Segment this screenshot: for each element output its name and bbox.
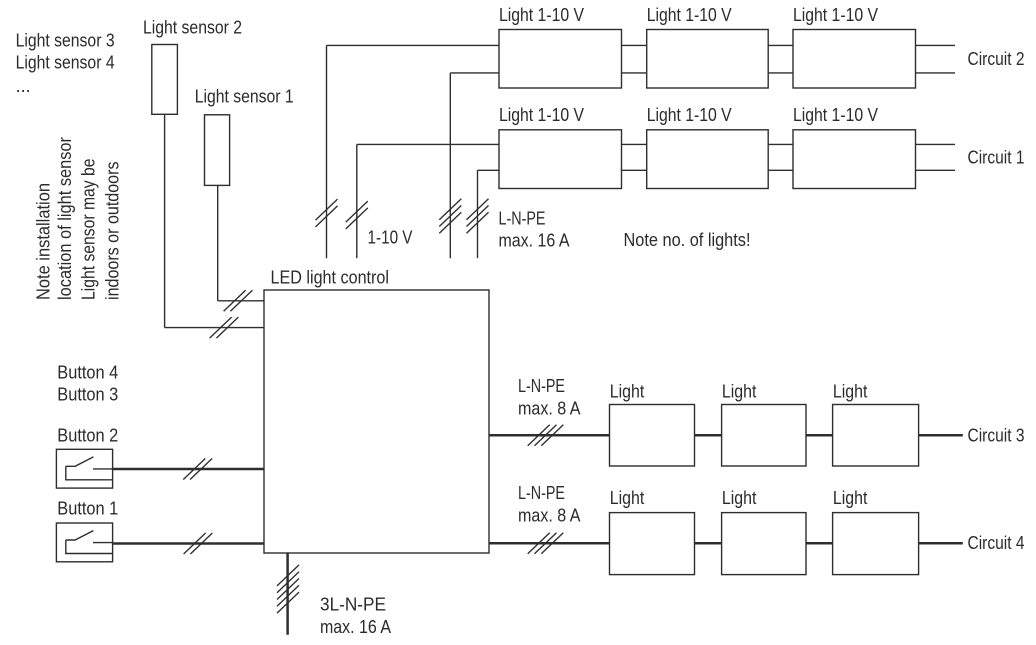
- wire controller to C1: [489, 434, 610, 437]
- wire A1-A2 top: [622, 44, 647, 46]
- wire sensor 2 vertical: [164, 114, 166, 327]
- wire A2-A3 bottom: [768, 72, 793, 74]
- svg-text:max. 8 A: max. 8 A: [518, 399, 581, 419]
- light box D3: [833, 513, 919, 575]
- svg-text:Light sensor 4: Light sensor 4: [16, 53, 115, 73]
- cable mark sensor 2 wire: [210, 317, 239, 338]
- wire controller to D1: [489, 542, 610, 545]
- wire sensor 1 horizontal: [218, 300, 264, 302]
- button 2 box: [56, 449, 112, 488]
- svg-text:Light 1-10 V: Light 1-10 V: [499, 105, 584, 125]
- light box C2: [722, 405, 806, 467]
- wire A3 out top: [916, 44, 956, 46]
- wire row B feed top: [357, 143, 499, 145]
- cable mark sensor 1 wire: [224, 290, 253, 311]
- cable mark 1-10V circuit 1: [346, 201, 368, 229]
- svg-text:Light: Light: [833, 381, 868, 401]
- cable mark L-N-PE circuit 2: [439, 199, 461, 234]
- svg-text:Note installation: Note installation: [34, 183, 54, 300]
- light 1-10V box B2: [647, 130, 769, 189]
- svg-text:Light 1-10 V: Light 1-10 V: [793, 5, 878, 25]
- light sensor 2 symbol: [152, 45, 178, 115]
- svg-text:...: ...: [16, 76, 31, 96]
- svg-text:Circuit 2: Circuit 2: [968, 49, 1025, 69]
- wire B3 out top: [916, 143, 956, 145]
- LED light control box: [264, 290, 489, 553]
- cable mark circuit 3 wire: [528, 425, 564, 446]
- svg-text:location of light sensor: location of light sensor: [55, 137, 75, 300]
- cable mark 1-10V circuit 2: [316, 199, 338, 227]
- svg-text:Light: Light: [610, 381, 645, 401]
- svg-text:L-N-PE: L-N-PE: [518, 483, 565, 503]
- wire B2-B3 bottom: [768, 169, 793, 171]
- wire A3 out bottom: [916, 72, 956, 74]
- svg-text:Light: Light: [610, 488, 645, 508]
- svg-text:L-N-PE: L-N-PE: [518, 376, 565, 396]
- wire row A feed top: [327, 44, 500, 46]
- wire D1-D2: [695, 542, 722, 545]
- svg-text:max. 16 A: max. 16 A: [499, 231, 570, 251]
- light box C1: [610, 405, 695, 467]
- wire B3 out bottom: [916, 169, 956, 171]
- cable mark button 1 wire: [184, 533, 213, 554]
- svg-text:Light: Light: [833, 488, 868, 508]
- light box C3: [833, 405, 919, 467]
- svg-text:Light 1-10 V: Light 1-10 V: [793, 105, 878, 125]
- svg-text:max. 16 A: max. 16 A: [320, 617, 391, 637]
- wire button 2 to controller: [113, 468, 264, 471]
- light 1-10V box B1: [499, 130, 622, 189]
- wire D2-D3: [806, 542, 833, 545]
- svg-text:Light sensor may be: Light sensor may be: [79, 159, 99, 301]
- svg-text:Light 1-10 V: Light 1-10 V: [499, 5, 584, 25]
- svg-text:Button 3: Button 3: [57, 384, 118, 404]
- wire button 1 to controller: [113, 542, 264, 545]
- svg-text:Light sensor 3: Light sensor 3: [16, 31, 115, 51]
- svg-text:Circuit 4: Circuit 4: [968, 533, 1025, 553]
- svg-text:Circuit 3: Circuit 3: [968, 425, 1025, 445]
- button 2 switch symbol: [66, 466, 113, 480]
- wire sensor 2 horizontal: [165, 327, 264, 329]
- button 1 box: [56, 523, 112, 562]
- cable mark circuit 4 wire: [528, 533, 564, 554]
- wire A1-A2 bottom: [622, 72, 647, 74]
- light box D1: [610, 513, 695, 575]
- light 1-10V box A2: [647, 30, 769, 89]
- wire A2-A3 top: [768, 44, 793, 46]
- light 1-10V box A1: [499, 30, 622, 89]
- svg-text:indoors or outdoors: indoors or outdoors: [103, 162, 123, 301]
- svg-text:1-10 V: 1-10 V: [368, 227, 413, 247]
- wire mains 3L-N-PE: [286, 553, 289, 635]
- wire B2-B3 top: [768, 143, 793, 145]
- cable mark L-N-PE circuit 1: [467, 199, 489, 234]
- svg-text:Button 2: Button 2: [57, 426, 118, 446]
- cable mark button 2 wire: [183, 459, 212, 480]
- wire row B feed bottom: [478, 169, 500, 171]
- button 1 switch symbol: [66, 540, 113, 554]
- svg-text:Light: Light: [722, 381, 757, 401]
- wire C3 out: [919, 434, 963, 437]
- svg-text:Note no. of lights!: Note no. of lights!: [624, 230, 751, 250]
- wire C2-C3: [806, 434, 833, 437]
- svg-text:3L-N-PE: 3L-N-PE: [320, 595, 386, 615]
- wire row A feed bottom: [450, 72, 499, 74]
- wire D3 out: [919, 542, 963, 545]
- wire B1-B2 bottom: [622, 169, 647, 171]
- svg-text:Light sensor 1: Light sensor 1: [195, 86, 294, 106]
- wire C1-C2: [695, 434, 722, 437]
- svg-text:Button 1: Button 1: [57, 499, 118, 519]
- svg-text:Button 4: Button 4: [57, 362, 118, 382]
- svg-text:L-N-PE: L-N-PE: [499, 209, 546, 229]
- wire 1-10V to circuit 2 vertical: [326, 45, 328, 258]
- light 1-10V box A3: [793, 30, 916, 89]
- wire B1-B2 top: [622, 143, 647, 145]
- wire 1-10V to circuit 1 vertical: [356, 144, 358, 258]
- svg-text:max. 8 A: max. 8 A: [518, 506, 581, 526]
- svg-text:Light: Light: [722, 488, 757, 508]
- svg-text:Light sensor 2: Light sensor 2: [143, 17, 242, 37]
- svg-text:Light 1-10 V: Light 1-10 V: [647, 5, 732, 25]
- svg-text:Light 1-10 V: Light 1-10 V: [647, 105, 732, 125]
- wire L-N-PE to circuit 2 vertical: [449, 73, 451, 258]
- light 1-10V box B3: [793, 130, 916, 189]
- light box D2: [722, 513, 806, 575]
- wire sensor 1 vertical: [217, 185, 219, 300]
- light sensor 1 symbol: [205, 115, 230, 186]
- wire L-N-PE to circuit 1 vertical: [477, 170, 479, 258]
- svg-text:LED light control: LED light control: [271, 268, 390, 288]
- cable mark mains 5 conductors: [277, 565, 299, 613]
- svg-text:Circuit 1: Circuit 1: [968, 148, 1025, 168]
